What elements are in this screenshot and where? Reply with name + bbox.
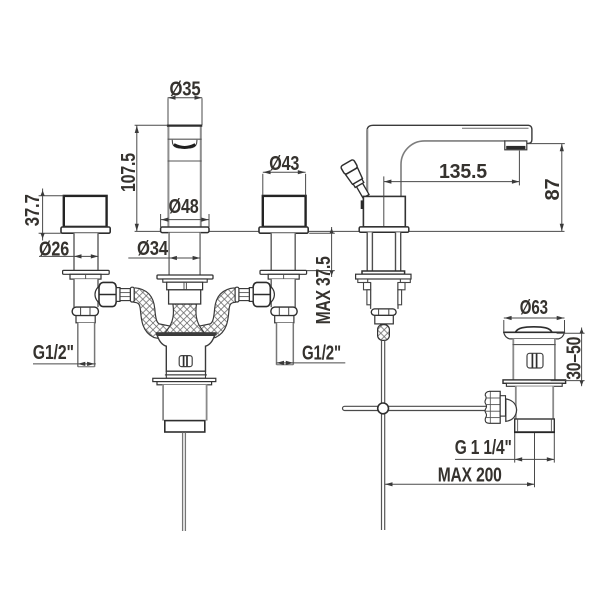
side braided hose stub <box>378 325 390 341</box>
svg-text:37.7: 37.7 <box>22 194 44 226</box>
dim 30-50 <box>551 328 586 387</box>
threaded shank <box>162 385 207 432</box>
svg-text:Ø34: Ø34 <box>137 238 169 260</box>
spout column extension lines (dia 35) <box>167 98 169 125</box>
waste side elbow <box>506 399 517 422</box>
pop-up rod (front) <box>182 432 184 531</box>
right supply tube <box>277 323 294 365</box>
side pop-up rod upper <box>381 340 383 403</box>
waste plug dome <box>515 327 552 332</box>
left flex hose <box>134 295 168 333</box>
waste deck flange <box>503 380 566 386</box>
svg-text:Ø35: Ø35 <box>170 78 201 100</box>
waste knurled nut <box>485 391 506 423</box>
left handle <box>64 196 107 227</box>
spout flange (dia 48) <box>161 227 209 233</box>
waste clamp detail <box>527 353 543 368</box>
spout mouth / aerator <box>172 140 197 148</box>
funnel mouth band <box>156 332 217 335</box>
waste lower body <box>515 386 554 419</box>
left escutcheon <box>63 270 110 279</box>
dim 87 <box>528 144 565 232</box>
svg-text:87: 87 <box>542 178 564 200</box>
left valve bottom nut <box>72 307 98 323</box>
waste top flange <box>503 332 565 339</box>
side threaded legs <box>367 232 401 271</box>
rod ball joint <box>378 403 389 414</box>
svg-text:135.5: 135.5 <box>439 161 487 183</box>
svg-text:G1/2": G1/2" <box>33 342 74 364</box>
side bottom nut <box>371 309 396 324</box>
dim G 1 1/4 <box>455 433 555 463</box>
waste upper body <box>513 339 556 380</box>
side base flange <box>359 227 409 232</box>
left handle flange <box>61 227 110 233</box>
left valve lower stem <box>74 279 98 307</box>
center braided riser <box>165 304 205 333</box>
pop-up rod clamp (front) <box>179 356 192 367</box>
center escutcheon <box>157 275 213 304</box>
svg-text:Ø43: Ø43 <box>269 153 299 175</box>
right valve stem <box>271 233 295 270</box>
funnel / tailpiece top <box>157 335 214 378</box>
side spout outline <box>367 125 532 196</box>
side lever handle <box>340 159 372 200</box>
svg-text:MAX 200: MAX 200 <box>438 464 502 486</box>
svg-text:Ø26: Ø26 <box>39 238 69 260</box>
side pop-up rod lower <box>381 414 383 530</box>
svg-text:MAX 37.5: MAX 37.5 <box>313 256 335 324</box>
rod line through body <box>383 176 385 231</box>
left supply tube <box>78 323 95 367</box>
dim MAX 200 <box>385 433 535 487</box>
dim G1/2 right <box>277 343 346 366</box>
deck reference line <box>135 230 565 232</box>
dim dia26 <box>39 238 98 260</box>
horizontal operating rod <box>343 406 489 410</box>
side escutcheon <box>356 271 411 283</box>
dim dia48 <box>161 196 209 227</box>
svg-text:Ø63: Ø63 <box>520 297 548 319</box>
dim G1/2 left <box>33 342 96 366</box>
spout lower stem (dia 34) <box>168 233 201 275</box>
dim dia34 <box>128 238 200 260</box>
set screw <box>361 200 364 209</box>
svg-text:Ø48: Ø48 <box>169 196 199 218</box>
side underbody and tails <box>364 283 406 309</box>
right escutcheon <box>260 270 307 279</box>
threaded shank flange <box>153 378 216 385</box>
dim dia43 <box>263 153 306 196</box>
svg-text:107.5: 107.5 <box>118 153 140 192</box>
side valve body <box>363 196 405 227</box>
right valve bottom nut <box>271 307 297 323</box>
dim 107.5 <box>118 125 168 231</box>
spout column body <box>167 126 202 228</box>
left hose connector <box>95 282 134 306</box>
right hose connector <box>235 282 274 306</box>
dim 135.5 <box>384 151 520 186</box>
dim MAX 37.5 <box>307 227 335 324</box>
right valve lower stem <box>271 279 295 307</box>
dim dia35 <box>168 78 203 100</box>
dim 37.7 <box>22 189 64 241</box>
side spout outlet <box>505 141 527 150</box>
waste tailpipe <box>514 419 555 432</box>
right flex hose <box>201 295 235 333</box>
svg-text:G 1 1/4": G 1 1/4" <box>455 437 512 459</box>
svg-text:G1/2": G1/2" <box>302 343 341 365</box>
svg-text:30–50: 30–50 <box>564 337 586 380</box>
right handle flange <box>259 227 308 233</box>
right handle <box>263 196 306 227</box>
left valve stem <box>74 233 98 270</box>
dim dia63 <box>504 297 565 332</box>
